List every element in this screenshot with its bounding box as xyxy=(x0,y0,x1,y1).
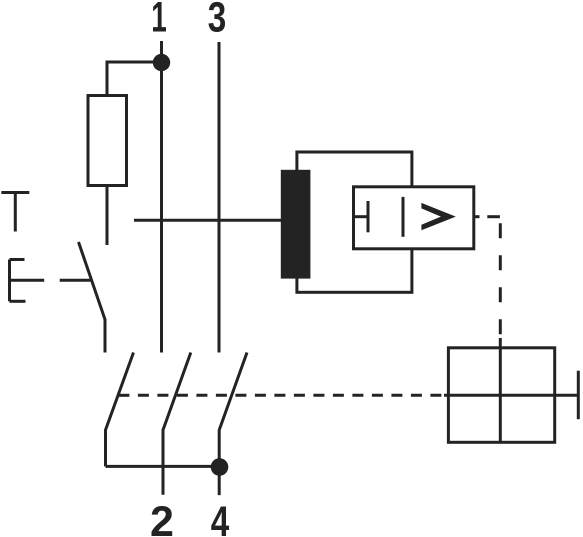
svg-text:2: 2 xyxy=(150,498,174,537)
svg-text:3: 3 xyxy=(208,0,227,42)
svg-text:4: 4 xyxy=(211,498,230,537)
svg-text:1: 1 xyxy=(151,0,167,42)
